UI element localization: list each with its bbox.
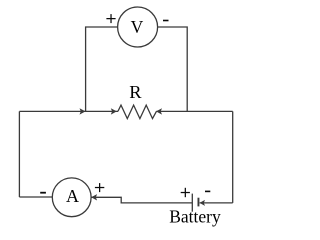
minus sign at ammeter left: [40, 192, 46, 194]
minus sign at voltmeter right: [163, 20, 169, 22]
minus sign at battery right: [205, 191, 210, 193]
svg-text:Battery: Battery: [169, 207, 221, 227]
plus sign at voltmeter left: [106, 18, 115, 19]
wire left vertical: [18, 111, 20, 197]
wire resistor right lead to right corner: [156, 110, 232, 112]
wire right vertical: [232, 111, 234, 202]
battery positive plate (long): [191, 194, 193, 212]
arrowhead pointing right into resistor: [111, 108, 117, 114]
resistor R zigzag: [118, 105, 156, 119]
arrowhead pointing left into resistor right side: [156, 108, 162, 114]
plus sign at ammeter right: [95, 187, 104, 188]
wire bottom-left to ammeter: [19, 196, 52, 198]
wire ammeter to battery with jog: [91, 197, 192, 203]
arrowhead pointing left into battery: [200, 200, 206, 206]
arrowhead pointing left into ammeter: [91, 194, 97, 200]
ammeter U-A circle: [52, 178, 91, 217]
battery negative plate (short thick): [198, 198, 200, 207]
wire middle horizontal (node between meters and R): [19, 110, 118, 112]
wire bottom-right (battery to right corner): [200, 202, 233, 204]
wire voltmeter top-left horizontal: [86, 27, 118, 111]
plus sign at battery left: [181, 192, 190, 193]
arrowhead on middle wire pointing right at node junction: [80, 108, 86, 114]
voltmeter U-V circle: [118, 7, 158, 47]
svg-text:R: R: [129, 82, 142, 102]
svg-text:A: A: [66, 186, 79, 206]
svg-text:V: V: [131, 17, 144, 37]
wire voltmeter top-right horizontal: [158, 27, 188, 111]
